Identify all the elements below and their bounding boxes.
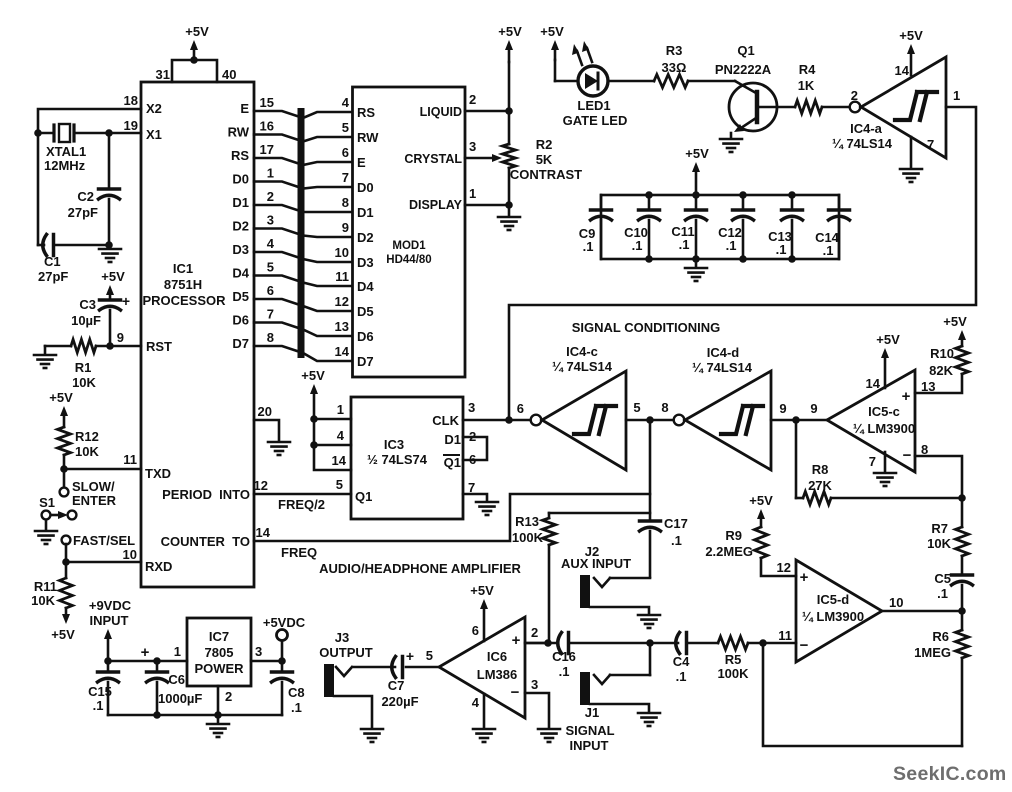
wire bus D5 pin 6 to MOD1 pin 12 xyxy=(254,299,352,311)
svg-text:10K: 10K xyxy=(31,593,55,608)
ground rail power xyxy=(108,714,282,717)
svg-text:9: 9 xyxy=(779,401,786,416)
svg-text:D3: D3 xyxy=(357,255,374,270)
svg-text:+: + xyxy=(406,648,414,664)
svg-text:40: 40 xyxy=(222,67,236,82)
svg-text:OUTPUT: OUTPUT xyxy=(319,645,373,660)
svg-text:¼ 74LS14: ¼ 74LS14 xyxy=(832,136,893,151)
svg-text:LIQUID: LIQUID xyxy=(420,105,462,119)
svg-text:+5V: +5V xyxy=(899,28,923,43)
wire pin 20 ground xyxy=(254,420,279,440)
svg-text:D4: D4 xyxy=(357,279,374,294)
svg-text:4: 4 xyxy=(337,428,345,443)
svg-text:RS: RS xyxy=(231,148,249,163)
svg-text:D2: D2 xyxy=(232,219,249,234)
svg-text:+5V: +5V xyxy=(470,583,494,598)
svg-text:2: 2 xyxy=(469,92,476,107)
svg-text:5: 5 xyxy=(426,648,433,663)
svg-text:+5V: +5V xyxy=(101,269,125,284)
wire base Q1 to R4 xyxy=(757,106,795,109)
svg-text:D1: D1 xyxy=(444,432,461,447)
op-amp U IC4-c 74LS14 xyxy=(531,415,542,426)
svg-text:R5: R5 xyxy=(725,652,742,667)
svg-text:S1: S1 xyxy=(39,495,55,510)
svg-text:12MHz: 12MHz xyxy=(44,158,86,173)
wire pin 4 IC3 xyxy=(310,441,318,449)
wiper wire CRYSTAL pin 3 xyxy=(465,157,494,160)
svg-text:.1: .1 xyxy=(937,586,948,601)
svg-text:½ 74LS74: ½ 74LS74 xyxy=(367,452,428,467)
svg-text:1: 1 xyxy=(174,644,181,659)
svg-text:10K: 10K xyxy=(75,444,99,459)
svg-text:R3: R3 xyxy=(666,43,683,58)
wire pin 10 output xyxy=(882,610,962,613)
svg-text:6: 6 xyxy=(267,283,274,298)
potentiometer R2 5K CONTRAST xyxy=(503,144,516,168)
svg-text:D6: D6 xyxy=(357,329,374,344)
svg-text:FAST/SEL: FAST/SEL xyxy=(73,533,135,548)
capacitor C1 27pF xyxy=(37,133,40,245)
svg-text:220µF: 220µF xyxy=(381,694,418,709)
wire CLK to IC4-c xyxy=(463,419,530,422)
svg-text:7: 7 xyxy=(869,454,876,469)
svg-text:.1: .1 xyxy=(291,700,302,715)
svg-text:RW: RW xyxy=(357,130,379,145)
svg-text:RST: RST xyxy=(146,339,172,354)
svg-text:17: 17 xyxy=(260,142,274,157)
svg-text:−: − xyxy=(903,447,912,464)
capacitor C9 .1 xyxy=(600,195,603,210)
regulator IC7 7805 POWER xyxy=(187,618,251,686)
svg-text:C8: C8 xyxy=(288,685,305,700)
wire RXD pin 10 xyxy=(65,544,68,562)
svg-text:X1: X1 xyxy=(146,127,162,142)
svg-text:8: 8 xyxy=(342,195,349,210)
svg-text:27pF: 27pF xyxy=(68,205,98,220)
wire bus D0 pin 1 to MOD1 pin 7 xyxy=(254,182,352,189)
switch S1 contact SLOW/ENTER xyxy=(63,469,66,487)
capacitor C2 27pF xyxy=(108,133,111,189)
wire X2 xyxy=(38,109,141,133)
svg-text:12: 12 xyxy=(254,478,268,493)
svg-text:C17: C17 xyxy=(664,516,688,531)
capacitor C6 1000uF xyxy=(156,661,159,672)
resistor R4 1K xyxy=(795,101,822,114)
svg-text:14: 14 xyxy=(895,63,910,78)
svg-text:1K: 1K xyxy=(798,78,815,93)
svg-text:10K: 10K xyxy=(927,536,951,551)
ground Q1 xyxy=(720,139,742,152)
svg-text:D0: D0 xyxy=(232,172,249,187)
svg-text:−: − xyxy=(800,637,809,654)
IC3 74LS74 xyxy=(351,397,463,519)
svg-text:2: 2 xyxy=(267,189,274,204)
capacitor C7 220uF xyxy=(392,657,396,678)
svg-text:7805: 7805 xyxy=(205,645,234,660)
svg-text:¼ 74LS14: ¼ 74LS14 xyxy=(552,359,613,374)
wire LED to R3 xyxy=(608,80,654,83)
svg-text:.1: .1 xyxy=(679,237,690,252)
wire bus D4 pin 5 to MOD1 pin 11 xyxy=(254,276,352,287)
svg-text:+5V: +5V xyxy=(685,146,709,161)
svg-text:R8: R8 xyxy=(812,462,829,477)
svg-text:RXD: RXD xyxy=(145,559,172,574)
LED1 GATE LED xyxy=(578,66,608,96)
op-amp IC5-d LM3900 xyxy=(796,560,882,662)
ground IC7 xyxy=(217,715,220,722)
svg-text:TXD: TXD xyxy=(145,466,171,481)
resistor R6 1MEG xyxy=(961,611,964,630)
svg-text:FREQ/2: FREQ/2 xyxy=(278,497,325,512)
svg-text:15: 15 xyxy=(260,95,274,110)
svg-text:+5V: +5V xyxy=(301,368,325,383)
arrow to +5V xyxy=(65,608,68,616)
svg-text:C3: C3 xyxy=(79,297,96,312)
svg-text:7: 7 xyxy=(342,170,349,185)
svg-text:−: − xyxy=(511,684,520,701)
svg-text:6: 6 xyxy=(342,145,349,160)
wire X1 xyxy=(105,129,113,137)
svg-text:8751H: 8751H xyxy=(164,277,202,292)
svg-text:27K: 27K xyxy=(808,478,832,493)
svg-text:33Ω: 33Ω xyxy=(662,60,687,75)
IC1 8751H PROCESSOR xyxy=(141,82,254,587)
svg-text:27pF: 27pF xyxy=(38,269,68,284)
svg-text:R7: R7 xyxy=(931,521,948,536)
svg-text:LED1: LED1 xyxy=(577,98,610,113)
svg-text:+: + xyxy=(902,388,911,405)
svg-text:3: 3 xyxy=(267,213,274,228)
svg-text:18: 18 xyxy=(124,93,138,108)
wire FREQ pin 14 xyxy=(254,494,650,541)
wire pin 2 IC7 xyxy=(217,686,220,715)
svg-text:+: + xyxy=(141,644,150,661)
wire bus D1 pin 2 to MOD1 pin 8 xyxy=(254,205,352,212)
svg-text:10µF: 10µF xyxy=(71,313,101,328)
svg-text:CLK: CLK xyxy=(432,413,459,428)
svg-text:INPUT: INPUT xyxy=(570,738,609,753)
svg-text:14: 14 xyxy=(332,453,347,468)
capacitor C13 .1 xyxy=(791,195,794,210)
svg-text:+9VDC: +9VDC xyxy=(89,598,132,613)
svg-text:10: 10 xyxy=(889,595,903,610)
resistor R1 10K xyxy=(106,342,114,350)
svg-text:4: 4 xyxy=(472,695,480,710)
resistor R3 33ohm xyxy=(654,75,688,88)
ground R1 xyxy=(44,346,47,353)
svg-text:D4: D4 xyxy=(232,266,249,281)
wire bus E pin 15 to MOD1 pin 4 xyxy=(254,111,352,118)
svg-text:C15: C15 xyxy=(88,684,112,699)
svg-text:5K: 5K xyxy=(536,152,553,167)
svg-text:POWER: POWER xyxy=(194,661,244,676)
svg-text:10: 10 xyxy=(335,245,349,260)
wire FREQ/2 pin 12 xyxy=(254,493,351,496)
svg-text:+5V: +5V xyxy=(943,314,967,329)
resistor R8 27K xyxy=(795,420,798,498)
svg-text:14: 14 xyxy=(866,376,881,391)
svg-text:+5V: +5V xyxy=(185,24,209,39)
svg-text:8: 8 xyxy=(661,400,668,415)
svg-text:DISPLAY: DISPLAY xyxy=(409,198,463,212)
op-amp U IC4-a 74LS14 xyxy=(850,102,861,113)
svg-text:.1: .1 xyxy=(823,243,834,258)
svg-text:D7: D7 xyxy=(357,354,374,369)
svg-text:FREQ: FREQ xyxy=(281,545,317,560)
svg-text:RS: RS xyxy=(357,105,375,120)
svg-text:C4: C4 xyxy=(673,654,690,669)
svg-text:D2: D2 xyxy=(357,230,374,245)
svg-text:100K: 100K xyxy=(717,666,749,681)
svg-text:ENTER: ENTER xyxy=(72,493,117,508)
svg-text:R4: R4 xyxy=(799,62,816,77)
capacitor C11 .1 xyxy=(695,195,698,210)
wire IC4-d output pin 9 xyxy=(771,419,827,422)
svg-text:+: + xyxy=(800,569,809,586)
svg-text:PROCESSOR: PROCESSOR xyxy=(142,293,226,308)
svg-text:+5V: +5V xyxy=(540,24,564,39)
svg-text:IC4-c: IC4-c xyxy=(566,344,598,359)
svg-text:E: E xyxy=(240,101,249,116)
svg-text:X2: X2 xyxy=(146,101,162,116)
svg-text:4: 4 xyxy=(342,95,350,110)
svg-text:.1: .1 xyxy=(632,238,643,253)
capacitor C5 .1 xyxy=(952,573,973,577)
svg-text:R1: R1 xyxy=(75,360,92,375)
resistor R13 100K xyxy=(548,513,551,518)
wire pin 1 IC3 xyxy=(310,415,318,423)
svg-text:+5V: +5V xyxy=(876,332,900,347)
cap bank box xyxy=(601,195,839,259)
switch S1 pole xyxy=(42,511,51,520)
svg-text:5: 5 xyxy=(336,477,343,492)
svg-text:C2: C2 xyxy=(77,189,94,204)
wire bus D2 pin 3 to MOD1 pin 9 xyxy=(254,229,352,238)
pins 31 40 bracket xyxy=(172,60,217,82)
svg-text:1MEG: 1MEG xyxy=(914,645,951,660)
svg-text:CRYSTAL: CRYSTAL xyxy=(404,152,462,166)
wire junction to C17 rail xyxy=(649,420,652,521)
svg-text:R9: R9 xyxy=(725,528,742,543)
wire pin 1 IC7 xyxy=(108,660,187,663)
svg-text:R10: R10 xyxy=(930,346,954,361)
capacitor C10 .1 xyxy=(648,195,651,210)
svg-text:2: 2 xyxy=(225,689,232,704)
svg-text:AUX INPUT: AUX INPUT xyxy=(561,556,631,571)
svg-text:GATE LED: GATE LED xyxy=(563,113,628,128)
svg-text:.1: .1 xyxy=(776,242,787,257)
svg-text:3: 3 xyxy=(255,644,262,659)
crystal XTAL1 12MHz xyxy=(38,132,54,135)
svg-text:19: 19 xyxy=(124,118,138,133)
svg-text:D0: D0 xyxy=(357,180,374,195)
svg-text:1: 1 xyxy=(267,166,274,181)
svg-text:Q1: Q1 xyxy=(737,43,754,58)
svg-text:Q1: Q1 xyxy=(355,489,372,504)
svg-text:3: 3 xyxy=(531,677,538,692)
svg-text:J3: J3 xyxy=(335,630,349,645)
capacitor C17 .1 xyxy=(640,519,661,523)
wire DISPLAY pin 1 xyxy=(465,204,509,207)
resistor R5 100K xyxy=(718,637,748,650)
svg-text:8: 8 xyxy=(267,330,274,345)
svg-text:IC3: IC3 xyxy=(384,437,404,452)
svg-text:XTAL1: XTAL1 xyxy=(46,144,86,159)
svg-text:2.2MEG: 2.2MEG xyxy=(705,544,753,559)
ground S1 xyxy=(45,520,48,529)
wire pin 2 IC6 xyxy=(525,642,548,645)
svg-text:5: 5 xyxy=(633,400,640,415)
svg-text:J1: J1 xyxy=(585,705,599,720)
svg-text:INPUT: INPUT xyxy=(90,613,129,628)
ground cap bank xyxy=(695,259,698,266)
svg-text:5: 5 xyxy=(342,120,349,135)
capacitor C16 .1 xyxy=(525,642,556,645)
svg-text:SIGNAL CONDITIONING: SIGNAL CONDITIONING xyxy=(572,320,721,335)
svg-text:2: 2 xyxy=(531,625,538,640)
svg-text:CONTRAST: CONTRAST xyxy=(510,167,582,182)
wire TXD pin 11 xyxy=(60,465,68,473)
svg-text:AUDIO/HEADPHONE AMPLIFIER: AUDIO/HEADPHONE AMPLIFIER xyxy=(319,561,521,576)
svg-text:¼ LM3900: ¼ LM3900 xyxy=(853,421,915,436)
svg-text:+5V: +5V xyxy=(749,493,773,508)
svg-text:10: 10 xyxy=(123,547,137,562)
svg-text:RW: RW xyxy=(228,125,250,140)
svg-text:SIGNAL: SIGNAL xyxy=(565,723,614,738)
svg-text:R12: R12 xyxy=(75,429,99,444)
svg-text:12: 12 xyxy=(777,560,791,575)
svg-text:11: 11 xyxy=(778,628,792,643)
svg-text:D6: D6 xyxy=(232,313,249,328)
svg-text:D7: D7 xyxy=(232,336,249,351)
svg-text:3: 3 xyxy=(468,400,475,415)
svg-text:9: 9 xyxy=(810,401,817,416)
op-amp IC5-c LM3900 xyxy=(827,370,915,472)
sleeve J3 to ground xyxy=(334,696,372,727)
wire IC4-c output pin 5 xyxy=(626,419,673,422)
wire bus RS pin 17 to MOD1 pin 6 xyxy=(254,158,352,165)
wire R4 to IC4-a xyxy=(822,106,849,109)
svg-text:LM386: LM386 xyxy=(477,667,517,682)
svg-text:1: 1 xyxy=(337,402,344,417)
switch S1 contact FAST/SEL xyxy=(62,536,71,545)
svg-text:COUNTER TO: COUNTER TO xyxy=(161,534,250,549)
svg-text:IC6: IC6 xyxy=(487,649,507,664)
svg-text:20: 20 xyxy=(258,404,272,419)
svg-text:100K: 100K xyxy=(512,530,544,545)
svg-text:C5: C5 xyxy=(934,571,951,586)
wire R3 to Q1 xyxy=(688,80,735,83)
op-amp U IC4-d 74LS14 xyxy=(674,415,685,426)
svg-text:R2: R2 xyxy=(536,137,553,152)
svg-text:D1: D1 xyxy=(232,195,249,210)
svg-text:+5VDC: +5VDC xyxy=(263,615,306,630)
svg-text:11: 11 xyxy=(335,269,349,284)
svg-text:5: 5 xyxy=(267,260,274,275)
svg-text:82K: 82K xyxy=(929,363,953,378)
svg-text:9: 9 xyxy=(342,220,349,235)
wire bus D3 pin 4 to MOD1 pin 10 xyxy=(254,252,352,262)
transistor Q1 PN2222A xyxy=(729,83,777,131)
svg-text:6: 6 xyxy=(472,623,479,638)
svg-text:C16: C16 xyxy=(552,649,576,664)
wire pin 14 IC3 xyxy=(314,445,351,470)
capacitor C15 .1 xyxy=(107,661,110,672)
svg-text:1: 1 xyxy=(469,186,476,201)
svg-text:SeekIC.com: SeekIC.com xyxy=(893,763,1007,785)
svg-text:+: + xyxy=(122,293,130,309)
svg-text:D1: D1 xyxy=(357,205,374,220)
svg-text:R13: R13 xyxy=(515,514,539,529)
svg-text:6: 6 xyxy=(517,401,524,416)
svg-text:6: 6 xyxy=(469,452,476,467)
svg-text:1: 1 xyxy=(953,88,960,103)
svg-text:+5V: +5V xyxy=(51,627,75,642)
svg-text:.1: .1 xyxy=(726,238,737,253)
svg-text:.1: .1 xyxy=(93,698,104,713)
svg-text:R11: R11 xyxy=(34,579,57,594)
svg-text:IC5-d: IC5-d xyxy=(817,592,850,607)
svg-text:PN2222A: PN2222A xyxy=(715,62,772,77)
resistor R11 10K xyxy=(60,578,73,608)
svg-text:MOD1: MOD1 xyxy=(392,240,426,252)
svg-text:10K: 10K xyxy=(72,375,96,390)
svg-text:SLOW/: SLOW/ xyxy=(72,479,115,494)
svg-text:C1: C1 xyxy=(44,254,61,269)
capacitor C8 .1 xyxy=(281,661,284,672)
capacitor C14 .1 xyxy=(838,195,841,210)
svg-text:.1: .1 xyxy=(583,239,594,254)
svg-text:.1: .1 xyxy=(559,664,570,679)
svg-text:PERIOD INTO: PERIOD INTO xyxy=(162,487,250,502)
capacitor C12 .1 xyxy=(742,195,745,210)
svg-text:IC5-c: IC5-c xyxy=(868,404,900,419)
svg-text:12: 12 xyxy=(335,294,349,309)
ground R2 xyxy=(508,205,511,215)
svg-text:IC4-d: IC4-d xyxy=(707,345,740,360)
svg-text:7: 7 xyxy=(927,137,934,152)
svg-text:+5V: +5V xyxy=(49,390,73,405)
svg-text:¼ LM3900: ¼ LM3900 xyxy=(802,609,864,624)
sleeve J1 to ground xyxy=(590,704,649,711)
svg-text:D5: D5 xyxy=(232,289,249,304)
wire pin 3 IC7 xyxy=(251,660,282,663)
wire bus D6 pin 7 to MOD1 pin 13 xyxy=(254,323,352,337)
svg-text:14: 14 xyxy=(256,525,271,540)
sleeve J2 to ground xyxy=(590,607,649,613)
svg-text:IC1: IC1 xyxy=(173,261,193,276)
svg-text:R6: R6 xyxy=(932,629,949,644)
svg-text:+5V: +5V xyxy=(498,24,522,39)
capacitor C4 .1 xyxy=(676,633,680,654)
LCD module MOD1 HD44/80 xyxy=(353,87,466,377)
svg-text:D5: D5 xyxy=(357,304,374,319)
svg-text:7: 7 xyxy=(267,307,274,322)
svg-text:Q1: Q1 xyxy=(444,455,461,470)
svg-text:1000µF: 1000µF xyxy=(158,691,202,706)
wire bus D7 pin 8 to MOD1 pin 14 xyxy=(254,346,352,361)
svg-text:C6: C6 xyxy=(168,672,185,687)
svg-text:.1: .1 xyxy=(671,533,682,548)
wire bus RW pin 16 to MOD1 pin 5 xyxy=(254,135,352,142)
svg-text:31: 31 xyxy=(156,67,170,82)
svg-text:14: 14 xyxy=(335,344,350,359)
svg-text:D3: D3 xyxy=(232,242,249,257)
svg-text:IC7: IC7 xyxy=(209,629,229,644)
svg-text:C7: C7 xyxy=(388,678,405,693)
svg-text:E: E xyxy=(357,155,366,170)
svg-text:¼ 74LS14: ¼ 74LS14 xyxy=(692,360,753,375)
